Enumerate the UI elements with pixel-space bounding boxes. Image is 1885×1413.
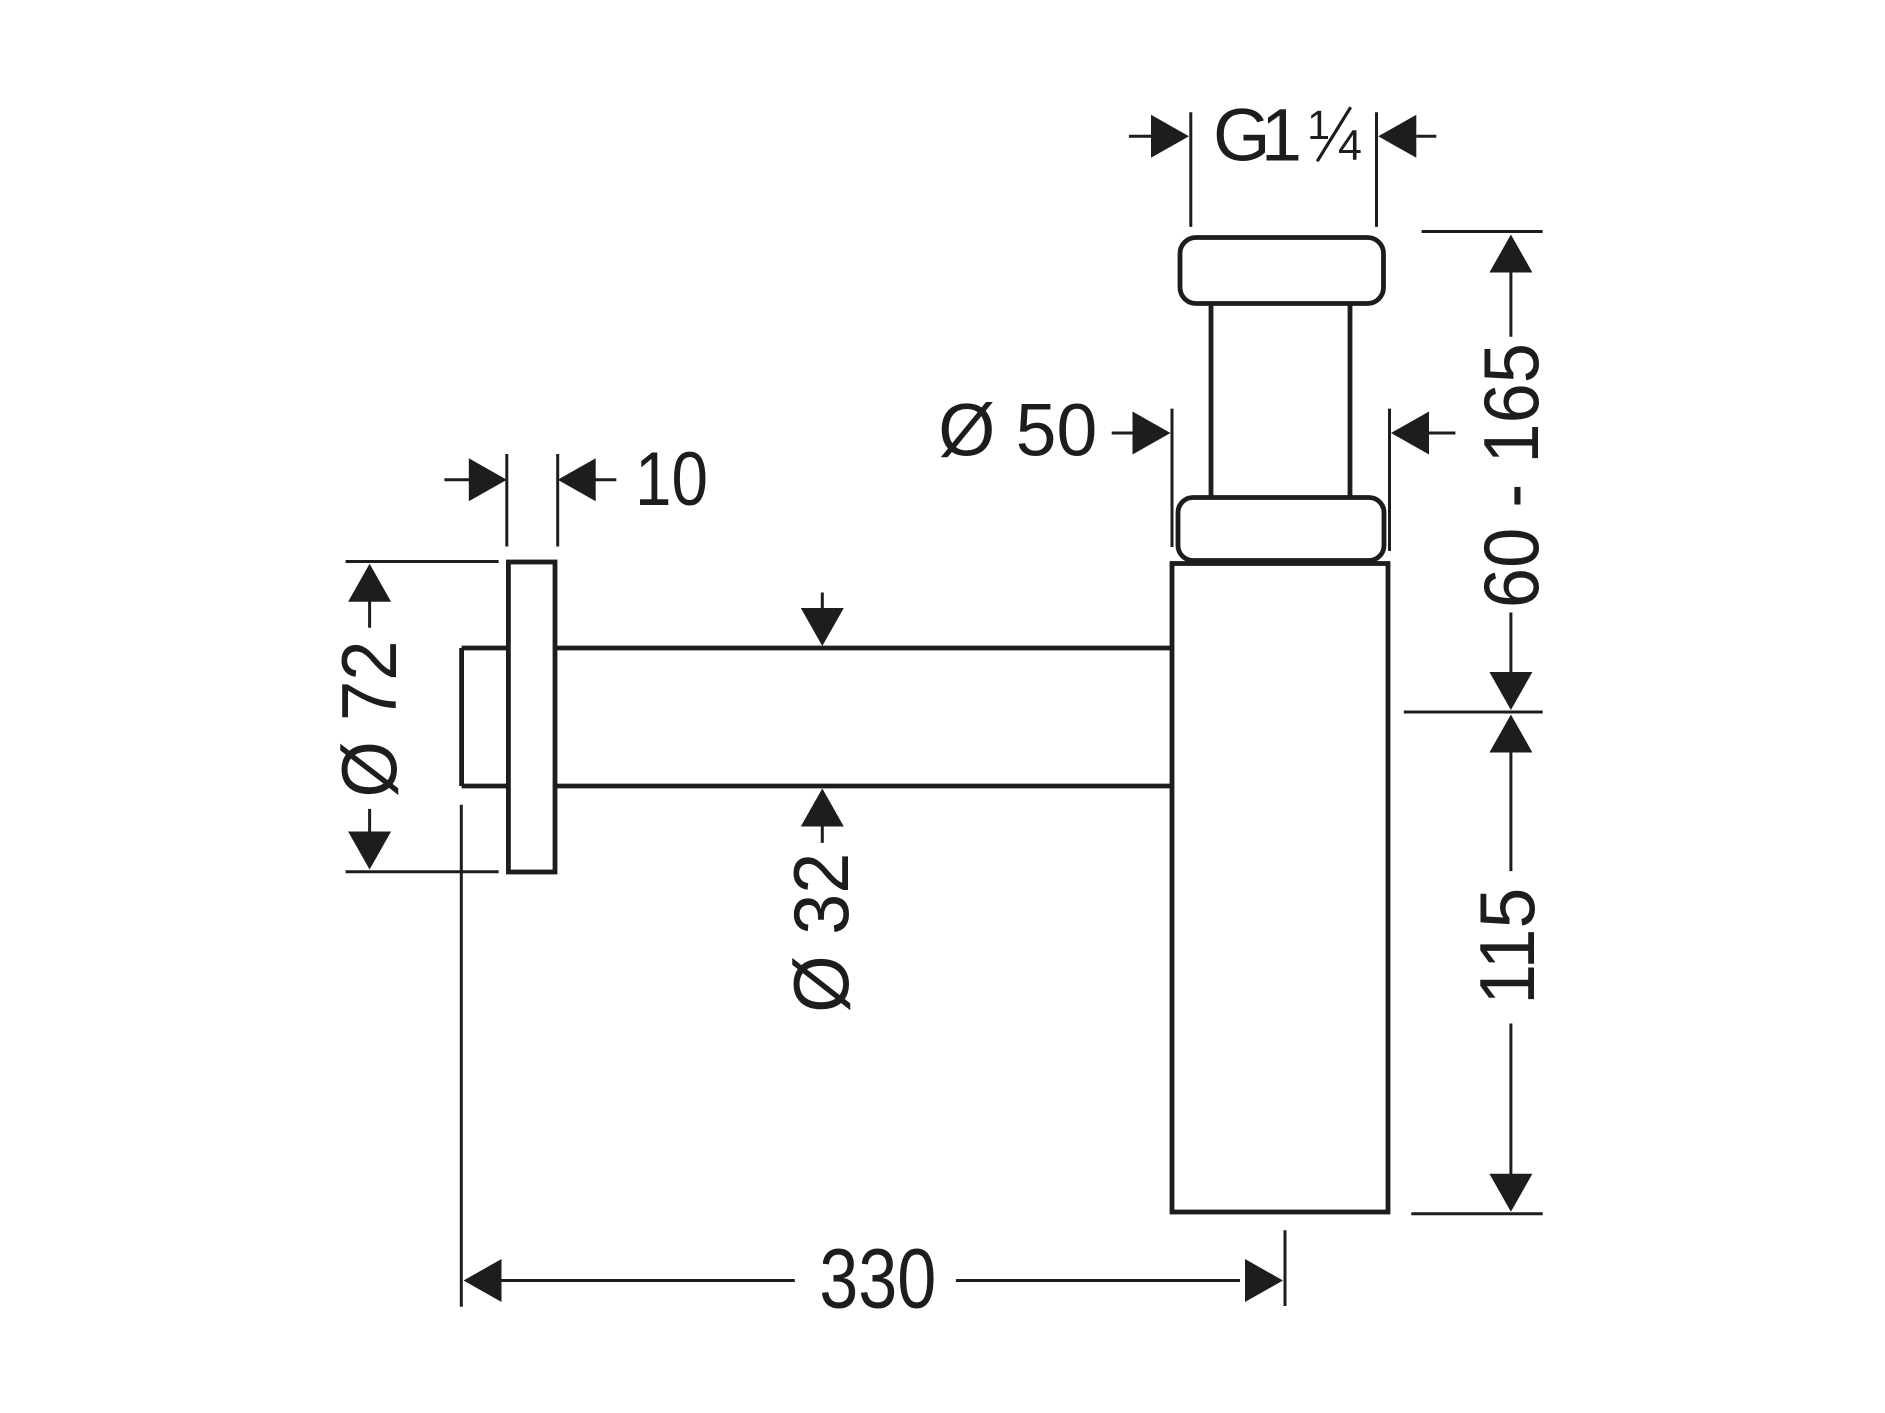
svg-text:Ø 72: Ø 72 — [325, 641, 413, 798]
svg-text:1: 1 — [1261, 94, 1302, 177]
svg-text:10: 10 — [635, 437, 708, 522]
svg-text:330: 330 — [819, 1232, 936, 1326]
svg-text:60 - 165: 60 - 165 — [1467, 343, 1555, 608]
svg-text:4: 4 — [1338, 122, 1362, 170]
svg-text:1: 1 — [1307, 102, 1330, 148]
svg-text:115: 115 — [1463, 888, 1551, 1005]
svg-text:Ø 50: Ø 50 — [938, 389, 1097, 472]
svg-text:Ø 32: Ø 32 — [777, 853, 865, 1013]
